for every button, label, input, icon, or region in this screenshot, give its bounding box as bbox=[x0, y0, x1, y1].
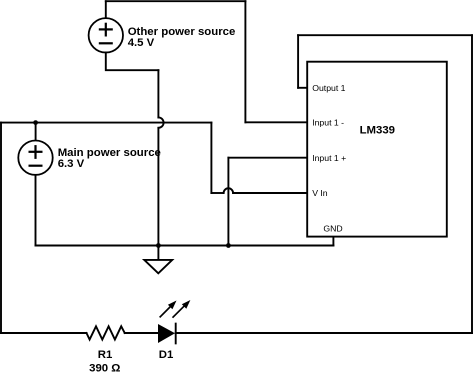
node C junction ground rail at (228.4,245.5) bbox=[226, 243, 231, 248]
svg-text:Input 1 -: Input 1 - bbox=[312, 118, 344, 128]
svg-text:V In: V In bbox=[312, 188, 328, 198]
wire GND pin stub up to IC bottom bbox=[332, 237, 334, 246]
node A junction main power + at (35.6,122.6) bbox=[33, 120, 38, 125]
wire Input 1 + pin lead bbox=[228, 157, 307, 159]
wire ground rail y=245.5 bbox=[36, 245, 334, 247]
svg-text:Input 1 +: Input 1 + bbox=[312, 153, 346, 163]
wire right outer vertical bbox=[471, 35, 473, 333]
wire vertical x=158.4 upper part down to hop bbox=[157, 70, 159, 117]
wire vertical x=158.4 lower part to ground rail bbox=[157, 128, 159, 246]
op-amp U1 LM339 body bbox=[307, 62, 447, 237]
wire hop: vertical jumps right over node row bbox=[158, 117, 163, 127]
wire Output 1 pin lead bbox=[298, 87, 307, 89]
svg-text:6.3 V: 6.3 V bbox=[58, 158, 85, 170]
ground bbox=[144, 246, 172, 274]
wire stub from node row down to main power source + terminal bbox=[35, 123, 37, 141]
wire top right horizontal bbox=[298, 34, 472, 36]
svg-text:4.5 V: 4.5 V bbox=[128, 37, 155, 49]
svg-text:R1: R1 bbox=[98, 349, 113, 361]
wire left outer vertical x=1 bbox=[0, 123, 2, 333]
svg-text:GND: GND bbox=[323, 224, 342, 234]
svg-text:LM339: LM339 bbox=[360, 125, 395, 137]
wire vertical x=211.4 from node row down to V In level bbox=[210, 123, 212, 193]
wire vertical drop to Output 1 level bbox=[297, 35, 299, 88]
voltage source V1 Main power source bbox=[18, 141, 52, 175]
wire horizontal node row y=122.6 from left edge to x=211.4 bbox=[1, 122, 211, 124]
LED D1 bbox=[158, 300, 190, 343]
wire from LED D1 to right edge bbox=[176, 332, 472, 334]
wire from main power source - terminal down to ground rail bbox=[35, 175, 37, 246]
wire stub from top rail down to other power source + terminal bbox=[105, 1, 107, 18]
wire top horizontal from other power source to right drop bbox=[106, 0, 246, 2]
wire vertical x=228.4 from Input 1 + down to ground rail bbox=[227, 158, 229, 246]
wire from other power source - terminal down then right bbox=[106, 53, 159, 71]
node B junction ground rail at (158.4,245.5) bbox=[156, 243, 161, 248]
voltage source V2 Other power source bbox=[89, 18, 123, 52]
wire from R1 to LED D1 bbox=[125, 332, 158, 334]
wire bottom from left edge to resistor R1 bbox=[1, 332, 87, 334]
svg-text:Output 1: Output 1 bbox=[312, 83, 345, 93]
wire V In pin lead with hop up over x=228.4 bbox=[211, 188, 307, 193]
resistor R1 bbox=[87, 326, 125, 339]
wire Input 1 - pin lead bbox=[245, 121, 307, 123]
svg-text:390 Ω: 390 Ω bbox=[89, 362, 120, 372]
svg-text:D1: D1 bbox=[159, 349, 174, 361]
wire vertical drop at x=245.4 to Input 1 - level bbox=[244, 1, 246, 122]
